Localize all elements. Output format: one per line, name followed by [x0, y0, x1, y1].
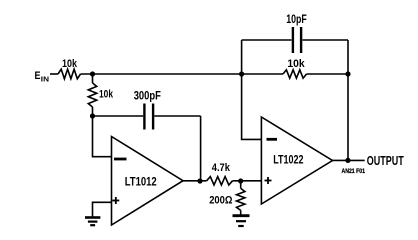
- svg-text:4.7k: 4.7k: [212, 162, 231, 174]
- wire junction to feedback resistor 10k: [242, 73, 283, 75]
- capacitor 300pF plates: [143, 104, 145, 130]
- wire right vertical feedback to output: [347, 40, 349, 160]
- wire feedback resistor to output node: [307, 73, 349, 75]
- wire feedback left vertical to U2 inverting input: [242, 40, 262, 139]
- op-amp U2 minus sign: [267, 138, 278, 141]
- wire node A to feedback junction: [81, 73, 243, 75]
- wire stub resistor to node B: [92, 107, 94, 116]
- op-amp U1 LT1012 triangle: [112, 137, 184, 226]
- op-amp U1 plus sign: [112, 200, 119, 202]
- resistor 10k (feedback): [283, 70, 307, 78]
- svg-text:300pF: 300pF: [134, 91, 161, 103]
- svg-text:OUTPUT: OUTPUT: [367, 153, 404, 168]
- wire node B down to inverting input: [93, 116, 112, 157]
- wire stub resistor 200 ohm to ground: [240, 210, 242, 214]
- wire capacitor 10pF to right corner: [303, 39, 349, 41]
- node at right feedback junction dot: [345, 71, 350, 76]
- wire node B to capacitor 300pF: [93, 115, 144, 117]
- svg-text:10pF: 10pF: [286, 14, 307, 26]
- resistor 200 ohm: [237, 188, 245, 210]
- node B junction dot (summing node): [90, 113, 95, 118]
- svg-text:10k: 10k: [99, 89, 114, 101]
- resistor 10k (to summing node): [88, 83, 96, 107]
- op-amp U2 LT1022 triangle: [261, 117, 332, 204]
- node EIN label: [35, 70, 50, 84]
- op-amp U1 minus sign: [114, 158, 127, 161]
- svg-text:LT1012: LT1012: [125, 174, 157, 188]
- wire non-inverting input to ground: [93, 202, 112, 217]
- wire stub node A to resistor 10k shunt: [92, 74, 94, 83]
- svg-text:IN: IN: [41, 75, 49, 84]
- node at output junction dot: [345, 158, 350, 163]
- wire U1 output to resistor 4.7k: [183, 180, 207, 182]
- wire resistor 4.7k to non-inverting input of U2: [233, 180, 262, 182]
- svg-text:200Ω: 200Ω: [209, 195, 232, 207]
- node at U1 output junction dot: [197, 178, 202, 183]
- node C junction dot: [238, 178, 243, 183]
- node at top feedback junction dot: [239, 71, 244, 76]
- svg-text:LT1022: LT1022: [273, 153, 304, 167]
- wire capacitor 300pF to feedback corner: [154, 115, 200, 117]
- node A junction dot: [90, 71, 95, 76]
- resistor 4.7k: [207, 177, 233, 185]
- wire feedback down to op-amp output: [200, 116, 202, 181]
- wire U2 output to OUTPUT: [333, 159, 365, 161]
- wire top to capacitor 10pF: [242, 39, 292, 41]
- capacitor 10pF plates: [292, 27, 294, 53]
- ground symbol (under 200 ohm): [233, 214, 250, 217]
- ground symbol (U1 non-inverting input): [85, 216, 100, 219]
- svg-text:AN21 F01: AN21 F01: [342, 169, 366, 175]
- svg-text:10k: 10k: [287, 58, 305, 70]
- svg-text:E: E: [35, 70, 41, 82]
- wire stub node C to resistor 200 ohm: [240, 181, 242, 188]
- svg-text:10k: 10k: [62, 58, 78, 70]
- op-amp U2 plus sign: [265, 180, 272, 182]
- resistor 10k (series input): [58, 69, 81, 79]
- wire from EIN to resistor 10k input: [50, 73, 58, 75]
